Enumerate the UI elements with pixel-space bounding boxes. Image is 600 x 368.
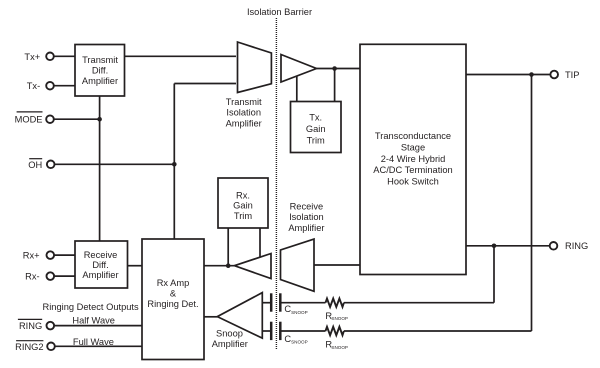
svg-text:Receive: Receive	[290, 201, 324, 211]
svg-text:Transmit: Transmit	[226, 97, 262, 107]
svg-text:Transconductance: Transconductance	[375, 131, 451, 141]
svg-text:Receive: Receive	[84, 250, 118, 260]
svg-text:Trim: Trim	[234, 211, 252, 221]
svg-text:Tx-: Tx-	[27, 81, 40, 91]
svg-text:Amplifier: Amplifier	[288, 223, 324, 233]
svg-text:Rx Amp: Rx Amp	[157, 278, 190, 288]
svg-text:SNOOP: SNOOP	[331, 345, 348, 350]
svg-text:MODE: MODE	[15, 115, 43, 125]
svg-text:Rx+: Rx+	[23, 251, 40, 261]
svg-text:RING: RING	[19, 321, 42, 331]
svg-text:Gain: Gain	[306, 124, 326, 134]
svg-text:Amplifier: Amplifier	[82, 270, 118, 280]
svg-text:Ringing Det.: Ringing Det.	[147, 299, 198, 309]
svg-text:SNOOP: SNOOP	[331, 316, 348, 321]
svg-text:&: &	[170, 288, 177, 298]
svg-text:Full Wave: Full Wave	[73, 337, 114, 347]
svg-text:Rx-: Rx-	[25, 272, 39, 282]
svg-text:Tx.: Tx.	[309, 112, 322, 122]
svg-text:Snoop: Snoop	[216, 329, 243, 339]
svg-text:Amplifier: Amplifier	[82, 76, 118, 86]
svg-text:Transmit: Transmit	[82, 55, 118, 65]
svg-text:Amplifier: Amplifier	[212, 339, 248, 349]
svg-text:Diff.: Diff.	[92, 260, 108, 270]
svg-text:Isolation Barrier: Isolation Barrier	[247, 7, 312, 17]
svg-text:SNOOP: SNOOP	[291, 340, 308, 345]
svg-text:Isolation: Isolation	[226, 108, 261, 118]
svg-text:Amplifier: Amplifier	[226, 118, 262, 128]
svg-text:Tx+: Tx+	[24, 52, 40, 62]
svg-text:Stage: Stage	[401, 143, 425, 153]
svg-text:OH: OH	[28, 160, 42, 170]
svg-text:Gain: Gain	[233, 201, 253, 211]
svg-text:Rx.: Rx.	[236, 190, 250, 200]
svg-text:Hook Switch: Hook Switch	[387, 176, 439, 186]
svg-text:Isolation: Isolation	[289, 212, 324, 222]
svg-text:2-4 Wire Hybrid: 2-4 Wire Hybrid	[381, 154, 446, 164]
svg-text:Trim: Trim	[307, 135, 325, 145]
svg-text:Diff.: Diff.	[92, 66, 108, 76]
svg-text:RING2: RING2	[15, 342, 43, 352]
svg-text:Half Wave: Half Wave	[72, 315, 115, 325]
svg-text:TIP: TIP	[565, 70, 579, 80]
svg-text:AC/DC Termination: AC/DC Termination	[373, 165, 452, 175]
svg-text:RING: RING	[565, 241, 588, 251]
svg-text:Ringing Detect Outputs: Ringing Detect Outputs	[43, 302, 139, 312]
svg-text:SNOOP: SNOOP	[291, 310, 308, 315]
